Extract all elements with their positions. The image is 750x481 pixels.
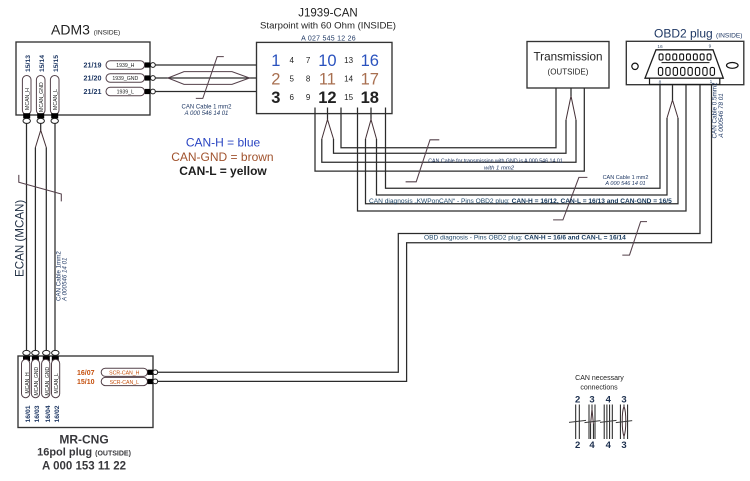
svg-text:13: 13 — [344, 56, 353, 65]
cable sheath symbol — [168, 72, 250, 85]
svg-text:5: 5 — [289, 74, 294, 83]
svg-text:A 000 546 14 01: A 000 546 14 01 — [604, 181, 645, 187]
OBD2 pins bottom row — [658, 67, 714, 75]
connector pill 1939_GND — [106, 74, 145, 82]
connector pill MCAN_H MR — [22, 359, 30, 397]
wire GND left branch — [34, 148, 36, 351]
connector pill SCR-CAN_H — [101, 368, 147, 376]
svg-text:A 000 546 14 01: A 000 546 14 01 — [184, 111, 229, 117]
svg-text:15/13: 15/13 — [25, 55, 32, 72]
svg-text:3: 3 — [621, 395, 626, 406]
legend crossing dashes — [569, 420, 632, 422]
svg-text:MCAN_L: MCAN_L — [53, 89, 59, 110]
legend group 3 lines — [604, 405, 612, 440]
cable mark slash CAN diag bundle — [553, 177, 587, 220]
svg-text:J1939-CAN: J1939-CAN — [298, 8, 357, 20]
svg-text:MCAN_H: MCAN_H — [25, 88, 31, 110]
svg-text:16/07: 16/07 — [77, 370, 95, 377]
svg-text:connections: connections — [580, 385, 618, 392]
svg-text:14: 14 — [344, 74, 353, 83]
svg-text:4: 4 — [606, 440, 612, 451]
svg-text:15/10: 15/10 — [77, 379, 95, 386]
svg-text:3: 3 — [589, 395, 594, 406]
svg-text:9: 9 — [709, 44, 712, 50]
wire GND right branch — [45, 148, 47, 351]
svg-text:MCAN_GND: MCAN_GND — [45, 366, 51, 395]
wire stub6 to OBD2 — [386, 85, 661, 189]
connector pill 1939_L — [106, 87, 145, 95]
svg-text:(OUTSIDE): (OUTSIDE) — [548, 68, 589, 77]
wire merge to OBD2 — [672, 85, 674, 101]
legend group 4 lines — [620, 405, 627, 440]
svg-text:6: 6 — [289, 93, 294, 102]
OBD2 middle slot — [662, 62, 710, 64]
svg-text:MCAN_GND: MCAN_GND — [34, 366, 40, 395]
svg-text:A 000 153 11 22: A 000 153 11 22 — [42, 461, 126, 473]
svg-text:16/01: 16/01 — [25, 405, 32, 422]
legend group 2 lines — [589, 405, 595, 440]
cable mark slash OBD pair — [622, 222, 647, 256]
svg-text:A 000546 78 01: A 000546 78 01 — [718, 93, 725, 138]
connector pill MCAN_L MR — [52, 359, 60, 397]
svg-text:16: 16 — [361, 52, 379, 70]
svg-text:1939_H: 1939_H — [116, 63, 134, 69]
svg-text:11: 11 — [319, 70, 336, 88]
OBD2 left hole — [632, 63, 638, 69]
svg-text:CAN-H = blue: CAN-H = blue — [186, 136, 261, 150]
connector pill MCAN_L — [50, 76, 59, 115]
wire split right branch — [377, 118, 668, 195]
OBD2 connector trapezoid — [645, 50, 723, 78]
box Transmission — [527, 42, 609, 89]
wire MCAN_L down — [54, 123, 56, 350]
wire CAN-GND ADM3 to J1939 — [155, 77, 256, 79]
wire SCR-CAN_L to OBD2 — [158, 85, 712, 382]
connector pill MCAN_H — [22, 76, 31, 115]
svg-text:1939_GND: 1939_GND — [112, 76, 138, 82]
svg-text:with 1 mm2: with 1 mm2 — [484, 165, 515, 171]
wire merge to transmission pin2 — [570, 88, 572, 96]
legend group 4 twisted lens — [622, 407, 626, 437]
OBD2 right hole — [727, 63, 739, 69]
splice split symbol — [322, 120, 334, 140]
box J1939-CAN — [257, 42, 393, 113]
wire stub2 split — [327, 108, 329, 120]
wire stub4 to OBD2 — [358, 85, 687, 212]
svg-text:Starpoint with 60 Ohm (INSIDE): Starpoint with 60 Ohm (INSIDE) — [260, 21, 396, 32]
legend group 1 lines — [576, 405, 580, 440]
wire stub5 split — [370, 108, 372, 120]
svg-text:A 000546 14 01: A 000546 14 01 — [62, 258, 69, 302]
svg-text:OBD diagnosis - Pins OBD2 plug: OBD diagnosis - Pins OBD2 plug: CAN-H = … — [424, 235, 626, 242]
wire split left branch — [322, 120, 576, 162]
splice merge symbol at OBD2 — [667, 100, 678, 118]
connector pill 1939_H — [106, 61, 145, 69]
svg-text:21/21: 21/21 — [84, 87, 102, 96]
svg-text:1939_L: 1939_L — [117, 90, 134, 96]
svg-text:A 027 545 12 26: A 027 545 12 26 — [301, 36, 356, 43]
svg-text:15: 15 — [344, 93, 353, 102]
terminal rings ADM3 bottom — [23, 118, 30, 123]
wire split right branch — [334, 120, 567, 153]
terminal rings ADM3 right — [151, 63, 156, 68]
svg-text:3: 3 — [621, 440, 626, 451]
connector pill MCAN_GND — [36, 76, 45, 115]
svg-text:CAN diagnosis „KWPonCAN“ - Pin: CAN diagnosis „KWPonCAN“ - Pins OBD2 plu… — [369, 198, 672, 205]
box OBD2 plug — [626, 41, 744, 84]
svg-text:8: 8 — [659, 79, 662, 85]
connector pill MCAN_GND MR — [31, 359, 39, 397]
cable mark slash left bundle — [19, 175, 62, 202]
OBD2 pins top row — [659, 54, 711, 60]
svg-text:CAN-GND = brown: CAN-GND = brown — [171, 150, 273, 164]
cable mark slash transmission bundle — [406, 140, 440, 182]
svg-text:MR-CNG: MR-CNG — [59, 433, 108, 447]
svg-text:21/20: 21/20 — [84, 73, 102, 82]
splice split symbol MCAN_GND — [35, 130, 46, 147]
OBD2 connector bottom strip — [650, 78, 720, 84]
svg-text:SCR-CAN_L: SCR-CAN_L — [110, 380, 140, 386]
svg-text:9: 9 — [306, 93, 311, 102]
terminal squares MR-CNG top — [23, 356, 30, 361]
wire CAN-L ADM3 to J1939 — [155, 91, 256, 93]
terminal rings MR-CNG top — [23, 350, 30, 355]
terminal squares ADM3 bottom — [23, 113, 30, 118]
svg-text:10: 10 — [318, 52, 336, 70]
terminal squares ADM3 right — [145, 62, 151, 67]
legend group 2 splice — [591, 409, 594, 424]
svg-text:2: 2 — [271, 70, 280, 88]
connector pill MCAN_GND2 MR — [42, 359, 50, 397]
svg-text:CAN Cable 1 mm2: CAN Cable 1 mm2 — [181, 104, 232, 110]
svg-text:17: 17 — [361, 70, 379, 88]
svg-text:4: 4 — [589, 440, 595, 451]
svg-text:21/19: 21/19 — [84, 60, 102, 69]
svg-text:CAN Cable for transmission wit: CAN Cable for transmission with GND is A… — [428, 158, 563, 164]
terminal rings MR-CNG right — [153, 370, 158, 375]
svg-text:4: 4 — [606, 395, 612, 406]
svg-text:15/15: 15/15 — [53, 55, 60, 72]
svg-text:MCAN_GND: MCAN_GND — [39, 82, 45, 112]
svg-text:12: 12 — [318, 89, 336, 107]
terminal squares MR-CNG right — [148, 370, 154, 375]
svg-text:CAN-L = yellow: CAN-L = yellow — [179, 164, 267, 178]
connector pill SCR-CAN_L — [101, 377, 147, 385]
svg-text:16: 16 — [657, 44, 663, 50]
svg-text:16/02: 16/02 — [54, 405, 61, 422]
svg-text:16/03: 16/03 — [34, 405, 41, 422]
splice split symbol — [366, 120, 377, 140]
box MR-CNG — [18, 356, 153, 428]
wire MCAN_H down — [26, 123, 28, 350]
wire MCAN_GND stub — [40, 123, 42, 130]
wire CAN-H ADM3 to J1939 — [155, 64, 256, 66]
cable mark slash — [196, 57, 224, 99]
svg-text:MCAN_H: MCAN_H — [25, 372, 31, 394]
svg-text:ECAN (MCAN): ECAN (MCAN) — [14, 200, 27, 277]
wire stub3 to transmission pin1 — [341, 88, 556, 148]
splice merge symbol at transmission — [566, 96, 576, 120]
svg-text:2: 2 — [575, 440, 580, 451]
svg-text:16/04: 16/04 — [45, 405, 52, 422]
svg-text:1: 1 — [271, 52, 280, 70]
svg-text:8: 8 — [306, 74, 311, 83]
svg-text:7: 7 — [306, 56, 311, 65]
svg-text:MCAN_L: MCAN_L — [54, 373, 60, 394]
svg-text:CAN necessary: CAN necessary — [575, 375, 624, 382]
wire stub1 to transmission pin3 — [315, 88, 584, 171]
svg-text:2: 2 — [575, 395, 580, 406]
starpoint pin grid — [271, 52, 379, 107]
wire split left branch — [366, 118, 679, 204]
svg-text:3: 3 — [271, 89, 280, 107]
wire SCR-CAN_H to OBD2 — [158, 85, 700, 373]
svg-text:15/14: 15/14 — [39, 55, 46, 72]
svg-text:18: 18 — [361, 89, 379, 107]
svg-text:SCR-CAN_H: SCR-CAN_H — [109, 371, 140, 377]
svg-text:4: 4 — [289, 56, 294, 65]
svg-text:Transmission: Transmission — [533, 51, 602, 64]
box ADM3 — [16, 42, 150, 115]
